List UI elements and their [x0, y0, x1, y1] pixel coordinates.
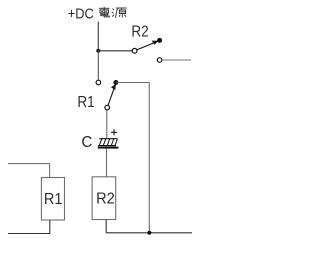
capacitor C negative plate (solid bar): [98, 147, 119, 149]
wire node A to R2 contact pivot: [98, 50, 132, 52]
wire right side vertical down to bottom node: [148, 83, 150, 233]
wire relay coil R1 box down and left to terminal: [8, 220, 50, 234]
svg-text:+DC: +DC: [68, 5, 94, 22]
svg-text:R1: R1: [77, 94, 94, 111]
wire left terminal to relay coil R1 box (horizontal): [8, 164, 50, 178]
wire R1 pivot down to capacitor: [106, 110, 108, 139]
relay contact R2 fixed terminal circle: [157, 58, 162, 63]
relay contact R1 pivot circle: [105, 105, 110, 110]
relay contact R1 arm tip dot / node B: [113, 80, 118, 85]
relay coil R1 box: [41, 178, 64, 221]
relay contact R2 pivot circle: [132, 48, 137, 53]
relay contact R2 arm with arrow: [137, 41, 158, 50]
kanji 源: [112, 8, 127, 18]
bottom node junction dot: [147, 231, 151, 235]
kanji 電: [99, 7, 110, 17]
svg-text:R2: R2: [131, 23, 148, 40]
wire relay coil R2 box down to bottom rail: [105, 220, 107, 233]
wire from R2 fixed terminal to the right: [162, 59, 191, 61]
capacitor C plus polarity mark: [111, 129, 117, 135]
wire capacitor to relay coil R2 box: [106, 149, 108, 177]
svg-text:R1: R1: [44, 191, 63, 208]
wire node B to right corner: [116, 82, 149, 84]
relay coil R2 box: [92, 177, 116, 220]
svg-text:R2: R2: [96, 190, 115, 207]
label +DC power supply (+DC電源): [68, 5, 127, 22]
node A junction dot: [96, 49, 100, 53]
capacitor C positive plate (hatched): [98, 139, 118, 146]
bottom rail wire: [106, 232, 192, 234]
relay contact R2 arm tip dot: [157, 38, 162, 43]
relay contact R1 arm with arrow: [108, 84, 116, 106]
svg-text:C: C: [81, 134, 92, 151]
wire from DC supply down to node A: [97, 22, 99, 51]
wire node A down to R1 contact fixed terminal: [97, 51, 99, 80]
relay contact R1 fixed terminal circle: [96, 80, 101, 85]
